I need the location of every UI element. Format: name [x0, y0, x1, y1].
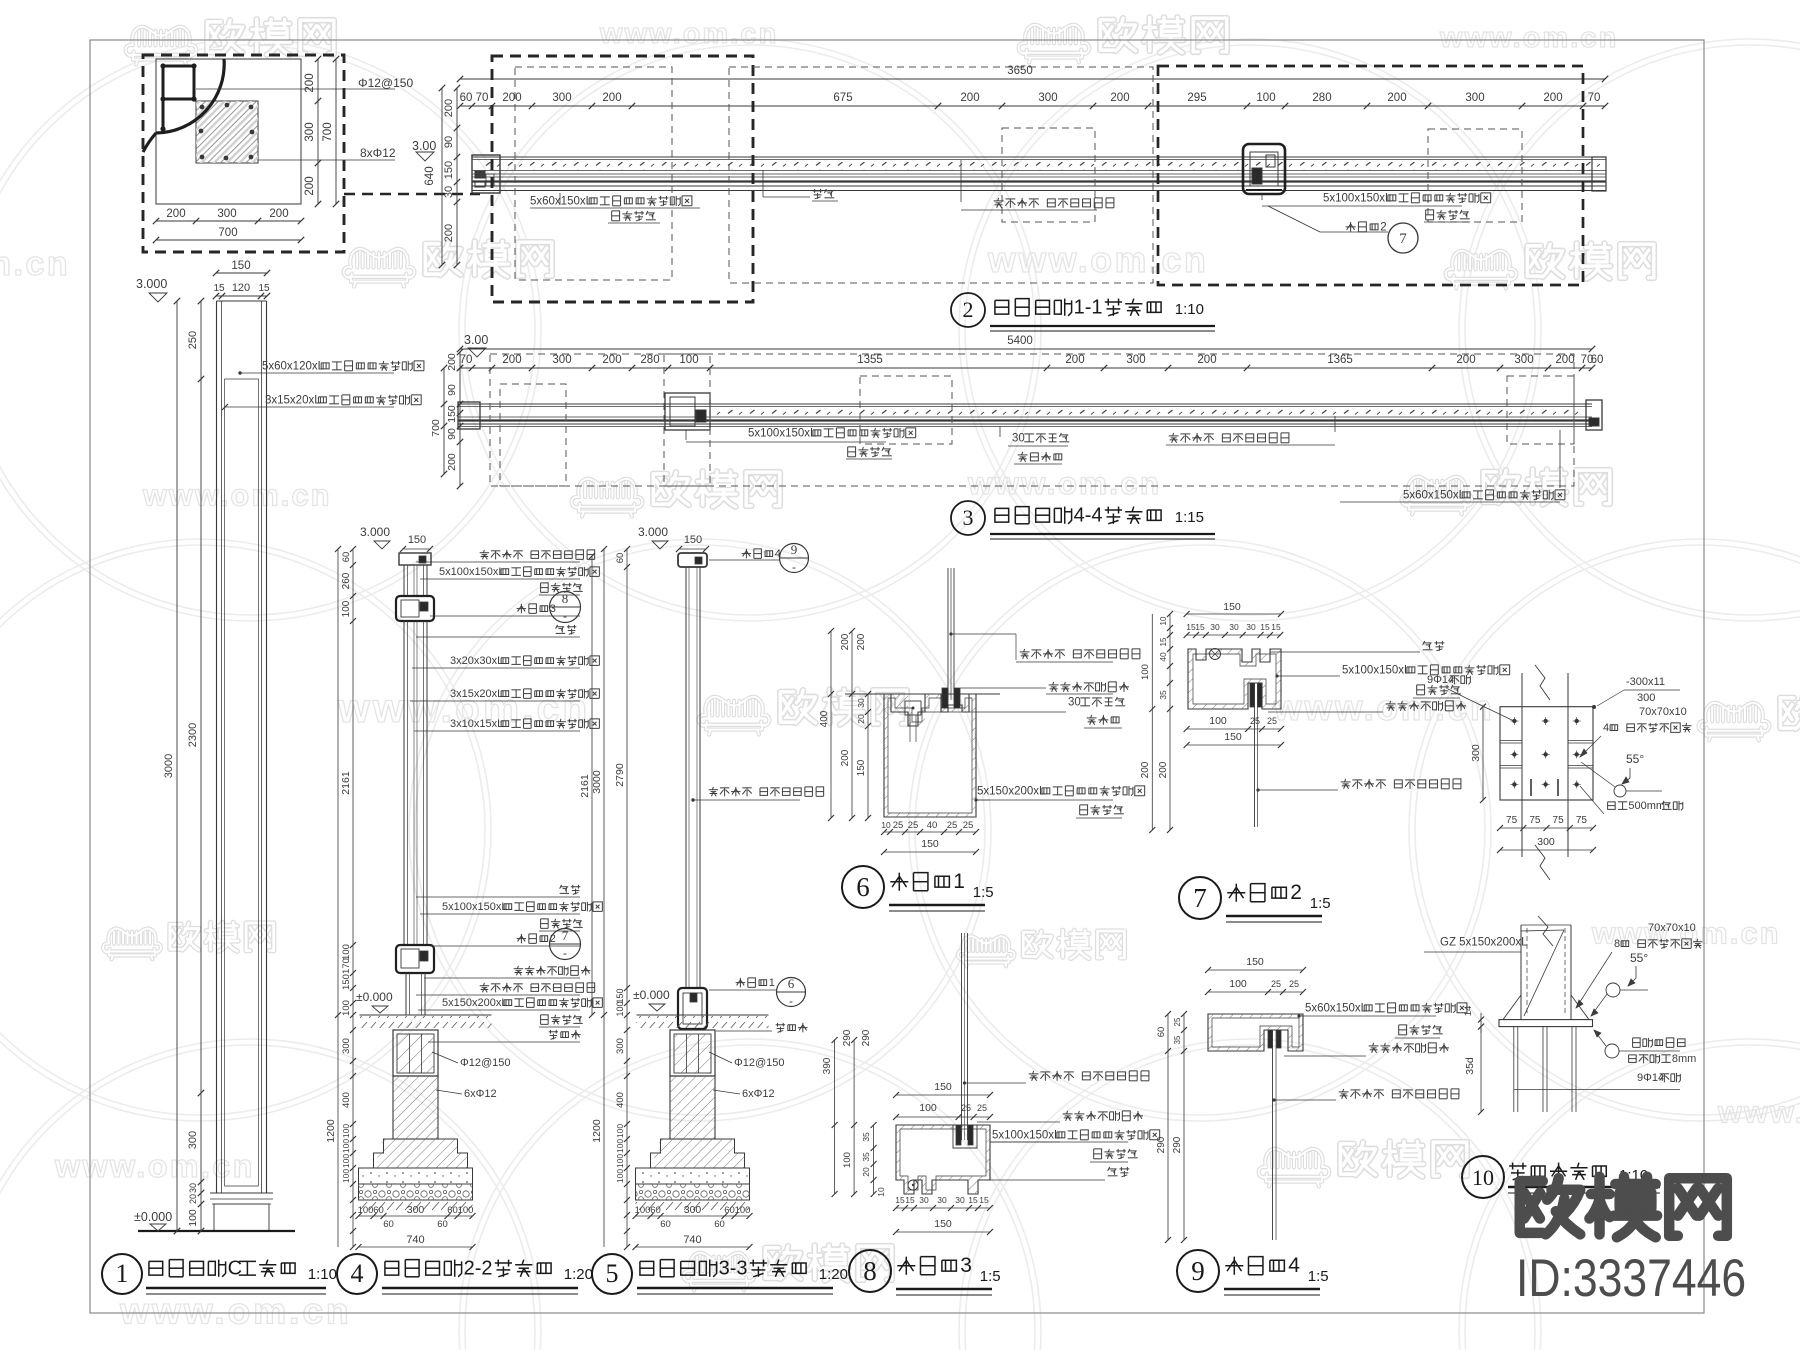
drawing3 top dimension chain [460, 367, 1592, 369]
svg-text:60: 60 [437, 1219, 448, 1230]
drawing2 label yixing jiagong (special fabrication) [611, 211, 613, 221]
svg-text:5x100x150xL: 5x100x150xL [748, 427, 817, 439]
svg-text:3: 3 [963, 505, 974, 530]
svg-text:100: 100 [679, 354, 698, 366]
foundation bottom ground hatch [359, 1201, 473, 1211]
svg-text:400: 400 [615, 1092, 626, 1108]
detail8 channel with notched bottom (hatched) [896, 1125, 990, 1194]
detail7 glass clamp and glass below [1250, 683, 1255, 707]
svg-text:3.00: 3.00 [412, 139, 436, 153]
svg-text:www.om.cn: www.om.cn [142, 479, 332, 513]
watermark decoration: big light circles row 3 [0, 1039, 541, 1350]
svg-text:1:15: 1:15 [1175, 509, 1204, 526]
svg-text:280: 280 [640, 354, 659, 366]
svg-text:25: 25 [963, 820, 974, 831]
svg-text:8: 8 [1614, 938, 1620, 950]
drawing5 pole top cap [678, 553, 707, 567]
plan label 8xphi12 with leader [258, 159, 395, 161]
drawing5 lower node (detail 6 cut) [678, 988, 707, 1029]
drawing5 foundation left dims [603, 1015, 605, 1247]
drawing1 label 3x15x20xL stainless with leader [225, 406, 394, 408]
svg-text:55°: 55° [1630, 951, 1648, 965]
svg-text:390: 390 [822, 1057, 833, 1074]
svg-text:150: 150 [921, 838, 939, 850]
svg-text:9: 9 [791, 542, 798, 557]
svg-text:300: 300 [407, 1204, 425, 1216]
svg-text:300: 300 [341, 1038, 352, 1054]
svg-text:100: 100 [615, 1139, 625, 1153]
svg-text:150: 150 [341, 974, 352, 990]
drawing1 top dim 150 / 15 120 15 [216, 272, 267, 274]
svg-text:3.000: 3.000 [638, 525, 668, 539]
detail6 ground line [845, 693, 1000, 695]
svg-text:150: 150 [684, 534, 702, 546]
svg-text:6: 6 [856, 872, 870, 902]
svg-text:2: 2 [1290, 881, 1302, 904]
drawing4 foundation left dims [337, 1015, 339, 1247]
svg-text:290: 290 [1156, 1136, 1167, 1153]
svg-text:120: 120 [232, 282, 250, 294]
svg-text:740: 740 [406, 1234, 424, 1246]
baseplate plan: 9 anchor dots [1512, 719, 1516, 723]
watermark tile: sofa + ou-mo-wang outline [684, 1253, 755, 1291]
svg-text:70: 70 [1588, 92, 1601, 104]
detail6 glass clamp dark blocks [942, 688, 948, 708]
foundation embed block with X-hatch [670, 1030, 715, 1076]
svg-text:4: 4 [351, 1259, 364, 1288]
drawing4 callout circle 8 [550, 592, 581, 623]
svg-text:200: 200 [856, 633, 867, 650]
drawing5 title: circle 5 + 3-3 section [592, 1254, 632, 1294]
detail6 title: circle 6 [842, 866, 884, 908]
svg-text:5x60x150xL: 5x60x150xL [530, 195, 593, 207]
svg-text:25: 25 [1173, 1017, 1182, 1026]
watermark tile: sofa + ou-mo-wang outline [1699, 703, 1770, 741]
svg-text:10: 10 [876, 1187, 886, 1197]
drawing3 title: circle 3 + 4-4 section [951, 501, 985, 535]
svg-text:30: 30 [1068, 696, 1081, 708]
svg-text:25: 25 [961, 1103, 971, 1113]
drawing4 pole main segment [403, 621, 405, 945]
drawing4 lower connector node (detail 7 cut) [396, 945, 434, 973]
svg-text:1: 1 [953, 870, 965, 893]
svg-text:3x15x20xL: 3x15x20xL [450, 688, 503, 700]
detail9 left dims [1167, 1014, 1169, 1240]
drawing3 label laminated glass vendor [1334, 416, 1336, 432]
svg-text:150: 150 [443, 161, 455, 179]
svg-text:15: 15 [979, 1195, 989, 1205]
detail9 labels right [1297, 1014, 1300, 1017]
watermark tile: sofa + ou-mo-wang outline [344, 249, 415, 287]
drawing4 left dimension columns [337, 549, 339, 1015]
svg-text:25: 25 [1289, 979, 1299, 989]
svg-text:8mm: 8mm [1672, 1053, 1696, 1065]
svg-text:150: 150 [1223, 601, 1241, 613]
detail9 title: circle 9 [1177, 1250, 1219, 1292]
drawing2 title: circle 2 + yuedong screen 1-1 section [951, 293, 985, 327]
drawing4 title: circle 4 + 2-2 section [337, 1254, 377, 1294]
embed side view: anchor tie line [1514, 1089, 1680, 1091]
svg-text:6: 6 [788, 976, 795, 991]
drawing5 glass label [691, 798, 694, 801]
detail7 labels right [1270, 651, 1420, 653]
svg-text:100: 100 [358, 1205, 374, 1216]
svg-text:400: 400 [819, 710, 830, 727]
svg-text:200: 200 [446, 353, 458, 371]
svg-text:5400: 5400 [1007, 335, 1033, 347]
svg-text:4-4: 4-4 [1074, 504, 1103, 526]
embed side view: column with break symbol [1520, 925, 1522, 1020]
foundation ground hatch [637, 1014, 769, 1016]
drawing2 top dimension chain [460, 105, 1605, 107]
drawing2 label 5x60x150xL stainless steel [559, 193, 561, 205]
drawing2 dashed boxes [492, 56, 753, 302]
drawing4 right label list with leaders [482, 550, 485, 553]
svg-text:1: 1 [116, 1259, 129, 1288]
svg-text:1:10: 1:10 [1175, 301, 1204, 318]
svg-text:30: 30 [955, 1195, 965, 1205]
drawing4 rebar labels [432, 1052, 458, 1063]
detail7 inverted-U channel with hatched walls [1188, 649, 1281, 709]
svg-text:55°: 55° [1626, 752, 1644, 766]
svg-text:www.om.cn: www.om.cn [967, 466, 1161, 501]
svg-text:35d: 35d [1464, 1057, 1476, 1075]
drawing5 label yumaijian (embed part) [716, 1030, 772, 1032]
svg-text:60: 60 [724, 1205, 735, 1216]
foundation ground hatch [360, 1014, 492, 1016]
svg-text:www.om.cn: www.om.cn [599, 18, 778, 50]
svg-text:35: 35 [1173, 1035, 1182, 1044]
svg-text:30: 30 [1210, 622, 1220, 632]
svg-text:200: 200 [1555, 354, 1574, 366]
svg-text:300: 300 [552, 354, 571, 366]
svg-text:200: 200 [446, 453, 458, 471]
svg-text:200: 200 [602, 354, 621, 366]
svg-text:±0.000: ±0.000 [134, 1210, 172, 1224]
svg-text:100: 100 [458, 1205, 474, 1216]
embed side view: weld symbol circles [1606, 983, 1620, 997]
detail9 glass clamp and glass below [1268, 1030, 1273, 1048]
svg-text:100: 100 [615, 1001, 625, 1016]
svg-text:300: 300 [552, 92, 571, 104]
site logo oumowang (dark gray) [1520, 1178, 1580, 1234]
svg-text:25: 25 [1250, 716, 1260, 726]
drawing3 label 5x100x150xL stainless [685, 430, 687, 440]
svg-text:100: 100 [1209, 715, 1227, 727]
svg-text:300: 300 [1637, 692, 1655, 704]
svg-text:150: 150 [856, 759, 867, 776]
svg-text:200: 200 [1456, 354, 1475, 366]
svg-text:70: 70 [476, 92, 489, 104]
svg-text:60: 60 [460, 92, 473, 104]
svg-text:5x100x150xL: 5x100x150xL [1323, 192, 1392, 204]
svg-text:100: 100 [635, 1205, 651, 1216]
drawing4 callout circle 7 [550, 929, 581, 960]
drawing2 middle post detail (dark rounded section at 1245) [1243, 144, 1285, 194]
drawing3 left vertical dims 200/90/150/90/200 and 700 [443, 368, 445, 474]
svg-text:300: 300 [1126, 354, 1145, 366]
svg-text:200: 200 [602, 92, 621, 104]
svg-text:5x60x150xL: 5x60x150xL [1305, 1002, 1368, 1014]
drawing3 beam left end cap [458, 402, 480, 429]
svg-text:200: 200 [443, 99, 455, 117]
svg-text:www.om.cn: www.om.cn [0, 245, 70, 283]
drawing2 callout detail-2 circle 7 [1350, 222, 1352, 232]
svg-text:2-2: 2-2 [464, 1257, 493, 1279]
site id text [1516, 1249, 1746, 1307]
svg-text:15: 15 [213, 283, 225, 294]
foundation slab with speckles [359, 1168, 473, 1184]
svg-text:70: 70 [460, 354, 473, 366]
svg-text:200: 200 [1140, 761, 1151, 778]
svg-text:35: 35 [861, 1132, 871, 1142]
svg-text:300: 300 [304, 122, 316, 141]
svg-text:5x150x200xL: 5x150x200xL [442, 997, 507, 1009]
svg-text:60: 60 [383, 1219, 394, 1230]
drawing2 label 5x100x150xL stainless steel [1261, 194, 1263, 200]
detail8 title: circle 8 [849, 1250, 891, 1292]
embed side view: slanted gusset inside column [1524, 930, 1564, 1016]
svg-text:300: 300 [1038, 92, 1057, 104]
svg-text:300: 300 [684, 1204, 702, 1216]
svg-text:15: 15 [1271, 622, 1281, 632]
svg-text:1-1: 1-1 [1074, 296, 1103, 318]
svg-text:740: 740 [683, 1234, 701, 1246]
svg-text:100: 100 [341, 944, 352, 960]
svg-text:5x150x200xL: 5x150x200xL [977, 785, 1046, 797]
drawing1 column body [216, 301, 218, 1193]
svg-text:5x100x150xL: 5x100x150xL [992, 1129, 1061, 1141]
drawing4 pole below node to ground [405, 973, 407, 1015]
svg-text:75: 75 [1529, 815, 1541, 826]
svg-text:40: 40 [1158, 652, 1168, 662]
svg-text:30: 30 [188, 1183, 198, 1193]
detail9 top dims 150 and 100/25/25 [1208, 969, 1303, 971]
svg-text:15: 15 [895, 1195, 905, 1205]
svg-text:280: 280 [1312, 92, 1331, 104]
svg-text:200: 200 [840, 749, 851, 766]
drawing2 beam left end cap [472, 155, 500, 193]
svg-text:5: 5 [606, 1259, 619, 1288]
section alignment dashed line to beam [344, 193, 480, 196]
svg-text:-: - [563, 946, 567, 960]
svg-text:100: 100 [341, 600, 352, 617]
svg-text:3x20x30xL: 3x20x30xL [450, 655, 503, 667]
watermark tile: sofa + ou-mo-wang outline [1446, 251, 1517, 289]
svg-text:300: 300 [187, 1131, 199, 1149]
watermark tile: sofa + ou-mo-wang outline [103, 929, 161, 960]
foundation concrete pier hatched [670, 1076, 715, 1139]
watermark tile: sofa + ou-mo-wang outline [699, 697, 770, 735]
svg-text:40: 40 [927, 820, 938, 831]
svg-text:7: 7 [562, 928, 569, 943]
svg-text:www.om.cn: www.om.cn [1717, 1096, 1800, 1130]
svg-text:260: 260 [341, 572, 352, 589]
drawing5 left dims [603, 549, 605, 1015]
svg-text:300: 300 [1537, 836, 1555, 848]
svg-text:2: 2 [963, 297, 974, 322]
svg-text:1: 1 [769, 977, 775, 989]
svg-text:100: 100 [615, 1169, 625, 1183]
svg-text:150: 150 [934, 1081, 952, 1093]
svg-text:±0.000: ±0.000 [633, 988, 670, 1002]
detail8 glass clamp slot [953, 1125, 977, 1148]
detail6 wall washer light fixture [905, 701, 921, 715]
svg-text:6xΦ12: 6xΦ12 [742, 1088, 775, 1100]
detail8 bottom dims 15/15/30/30/30/15/15 and 150 [896, 1207, 990, 1209]
baseplate plan: column lines with break symbols [1521, 673, 1523, 857]
drawing3 label 5x60x150xL stainless [1559, 430, 1561, 488]
svg-text:25: 25 [1267, 716, 1277, 726]
svg-text:150: 150 [446, 405, 458, 423]
embed side view: base gusset flares [1503, 995, 1521, 1020]
svg-text:100: 100 [187, 1209, 199, 1227]
detail8 top dims 150 and 100/25/25 [896, 1094, 990, 1096]
drawing1 ground line and plusminus 0.000 [138, 1230, 295, 1232]
svg-text:200: 200 [1110, 92, 1129, 104]
svg-text:30: 30 [1246, 622, 1256, 632]
svg-text:10: 10 [1159, 616, 1168, 625]
svg-text:2161: 2161 [579, 774, 591, 798]
svg-text:90: 90 [446, 428, 458, 440]
svg-text:90: 90 [446, 384, 458, 396]
foundation embed block with X-hatch [393, 1030, 438, 1076]
svg-text:9: 9 [1191, 1256, 1205, 1286]
baseplate plan: bottom stiffener stubs [1530, 779, 1532, 796]
svg-text:200: 200 [1065, 354, 1084, 366]
svg-text:20: 20 [188, 1194, 198, 1204]
svg-text:100: 100 [842, 1152, 853, 1168]
plan label phi12@150 with leader [196, 88, 395, 90]
svg-text:300: 300 [1470, 744, 1482, 762]
svg-text:2300: 2300 [187, 723, 199, 747]
foundation slab with speckles [636, 1168, 750, 1184]
drawing5 pole [685, 567, 687, 988]
svg-text:100: 100 [1229, 978, 1247, 990]
svg-text:150: 150 [1246, 956, 1264, 968]
svg-text:35: 35 [1158, 690, 1168, 700]
svg-text:100: 100 [341, 1154, 351, 1168]
baseplate plan: bottom dims 75x4 and 300 [1500, 827, 1593, 829]
svg-text:35: 35 [861, 1152, 871, 1162]
svg-text:3-3: 3-3 [719, 1257, 748, 1279]
svg-text:200: 200 [443, 224, 455, 242]
svg-text:200: 200 [502, 354, 521, 366]
svg-text:15: 15 [1195, 622, 1205, 632]
svg-text:25: 25 [947, 820, 958, 831]
baseplate plan: stiffener lines [1500, 740, 1522, 742]
foundation concrete pier hatched [393, 1076, 438, 1139]
drawing5 rebar labels [709, 1052, 732, 1063]
drawing3 label 30mm wall washer light [999, 426, 1001, 437]
svg-text:1200: 1200 [591, 1119, 603, 1143]
svg-text:675: 675 [833, 92, 852, 104]
svg-text:8: 8 [863, 1256, 877, 1286]
svg-text:400: 400 [341, 1092, 352, 1108]
svg-text:Φ12@150: Φ12@150 [734, 1057, 785, 1069]
svg-text:300: 300 [217, 208, 236, 220]
svg-text:7: 7 [1193, 883, 1207, 913]
svg-text:200: 200 [960, 92, 979, 104]
svg-text:200: 200 [304, 176, 316, 195]
drawing5 callout detail-4 circle 9 [745, 549, 747, 558]
svg-text:1355: 1355 [857, 354, 883, 366]
drawing3 right end cap [1586, 400, 1602, 430]
svg-text:150: 150 [408, 534, 426, 546]
drawing1 column base plinth [210, 1192, 273, 1194]
svg-text:5x100x150xL: 5x100x150xL [442, 901, 507, 913]
foundation plan outline [156, 59, 301, 204]
drawing3 overall dim 5400 [460, 348, 1592, 350]
svg-text:-: - [563, 609, 567, 623]
svg-text:100: 100 [615, 1124, 625, 1138]
svg-text:1200: 1200 [325, 1119, 337, 1143]
embed side view: base plate [1499, 1020, 1593, 1027]
svg-text:300: 300 [1465, 92, 1484, 104]
foundation steps [374, 1139, 468, 1168]
svg-text:100: 100 [615, 1154, 625, 1168]
svg-text:15: 15 [1159, 637, 1168, 646]
drawing2 left vertical dimensions 200/90/150/30/200 [441, 88, 443, 265]
svg-text:150: 150 [934, 1218, 952, 1230]
drawing2 overall dimension 3650 [460, 78, 1605, 80]
svg-text:10: 10 [881, 820, 891, 830]
detail6 bottom dims 10/25/25/40/25/25 and 150 [884, 831, 976, 833]
svg-text:5x100x150xL: 5x100x150xL [1342, 664, 1411, 676]
svg-text:200: 200 [1197, 354, 1216, 366]
svg-text:170: 170 [341, 958, 352, 974]
watermark tile: sofa + ou-mo-wang outline [572, 479, 643, 517]
svg-text:30: 30 [937, 1195, 947, 1205]
svg-text:20: 20 [861, 1167, 871, 1177]
svg-text:4: 4 [1603, 722, 1609, 734]
svg-text:100: 100 [341, 1124, 351, 1138]
svg-text:25: 25 [893, 820, 904, 831]
svg-text:www.om.cn: www.om.cn [987, 240, 1208, 280]
drawing3 mid post detail [665, 393, 710, 430]
svg-text:5x100x150xL: 5x100x150xL [439, 566, 504, 578]
svg-text:700: 700 [430, 419, 442, 437]
svg-text:3.000: 3.000 [360, 525, 390, 539]
svg-text:75: 75 [1576, 815, 1588, 826]
detail6 left dims [830, 631, 832, 818]
svg-text:1:5: 1:5 [973, 884, 994, 901]
svg-text:-: - [789, 994, 793, 1008]
svg-text:25: 25 [977, 1103, 987, 1113]
watermark tile: sofa + ou-mo-wang outline [1402, 477, 1473, 515]
drawing4 upper connector node (detail 8 cut) [396, 596, 434, 621]
svg-text:7: 7 [1399, 231, 1407, 247]
svg-text:30: 30 [1012, 432, 1025, 444]
svg-text:GZ 5x150x200xL: GZ 5x150x200xL [1440, 936, 1528, 948]
foundation gravel layer [359, 1184, 473, 1200]
drawing3 label see electrical drawings [1021, 452, 1024, 455]
svg-text:-300x11: -300x11 [1626, 676, 1665, 688]
drawing4 pole upper segment [403, 565, 405, 596]
svg-text:60: 60 [660, 1219, 671, 1230]
foundation bottom dimensions 100/60/60/300/60/60/100 and 740 [359, 1215, 473, 1217]
watermark decoration: big light circles row 2 [0, 539, 491, 1121]
svg-text:100: 100 [341, 1139, 351, 1153]
drawing2 label laminated glass vendor [960, 160, 962, 202]
svg-text:1:5: 1:5 [1310, 895, 1331, 912]
drawing1 inner trim lines (3x15x20 trim starts at 379) [224, 379, 226, 1186]
rebar corner bracket (thick) [163, 66, 194, 99]
drawing2 label spotlight (shedeng) [762, 170, 764, 197]
svg-text:6xΦ12: 6xΦ12 [464, 1088, 497, 1100]
svg-text:200: 200 [1543, 92, 1562, 104]
detail6 U-channel section with hatched walls [884, 694, 976, 817]
